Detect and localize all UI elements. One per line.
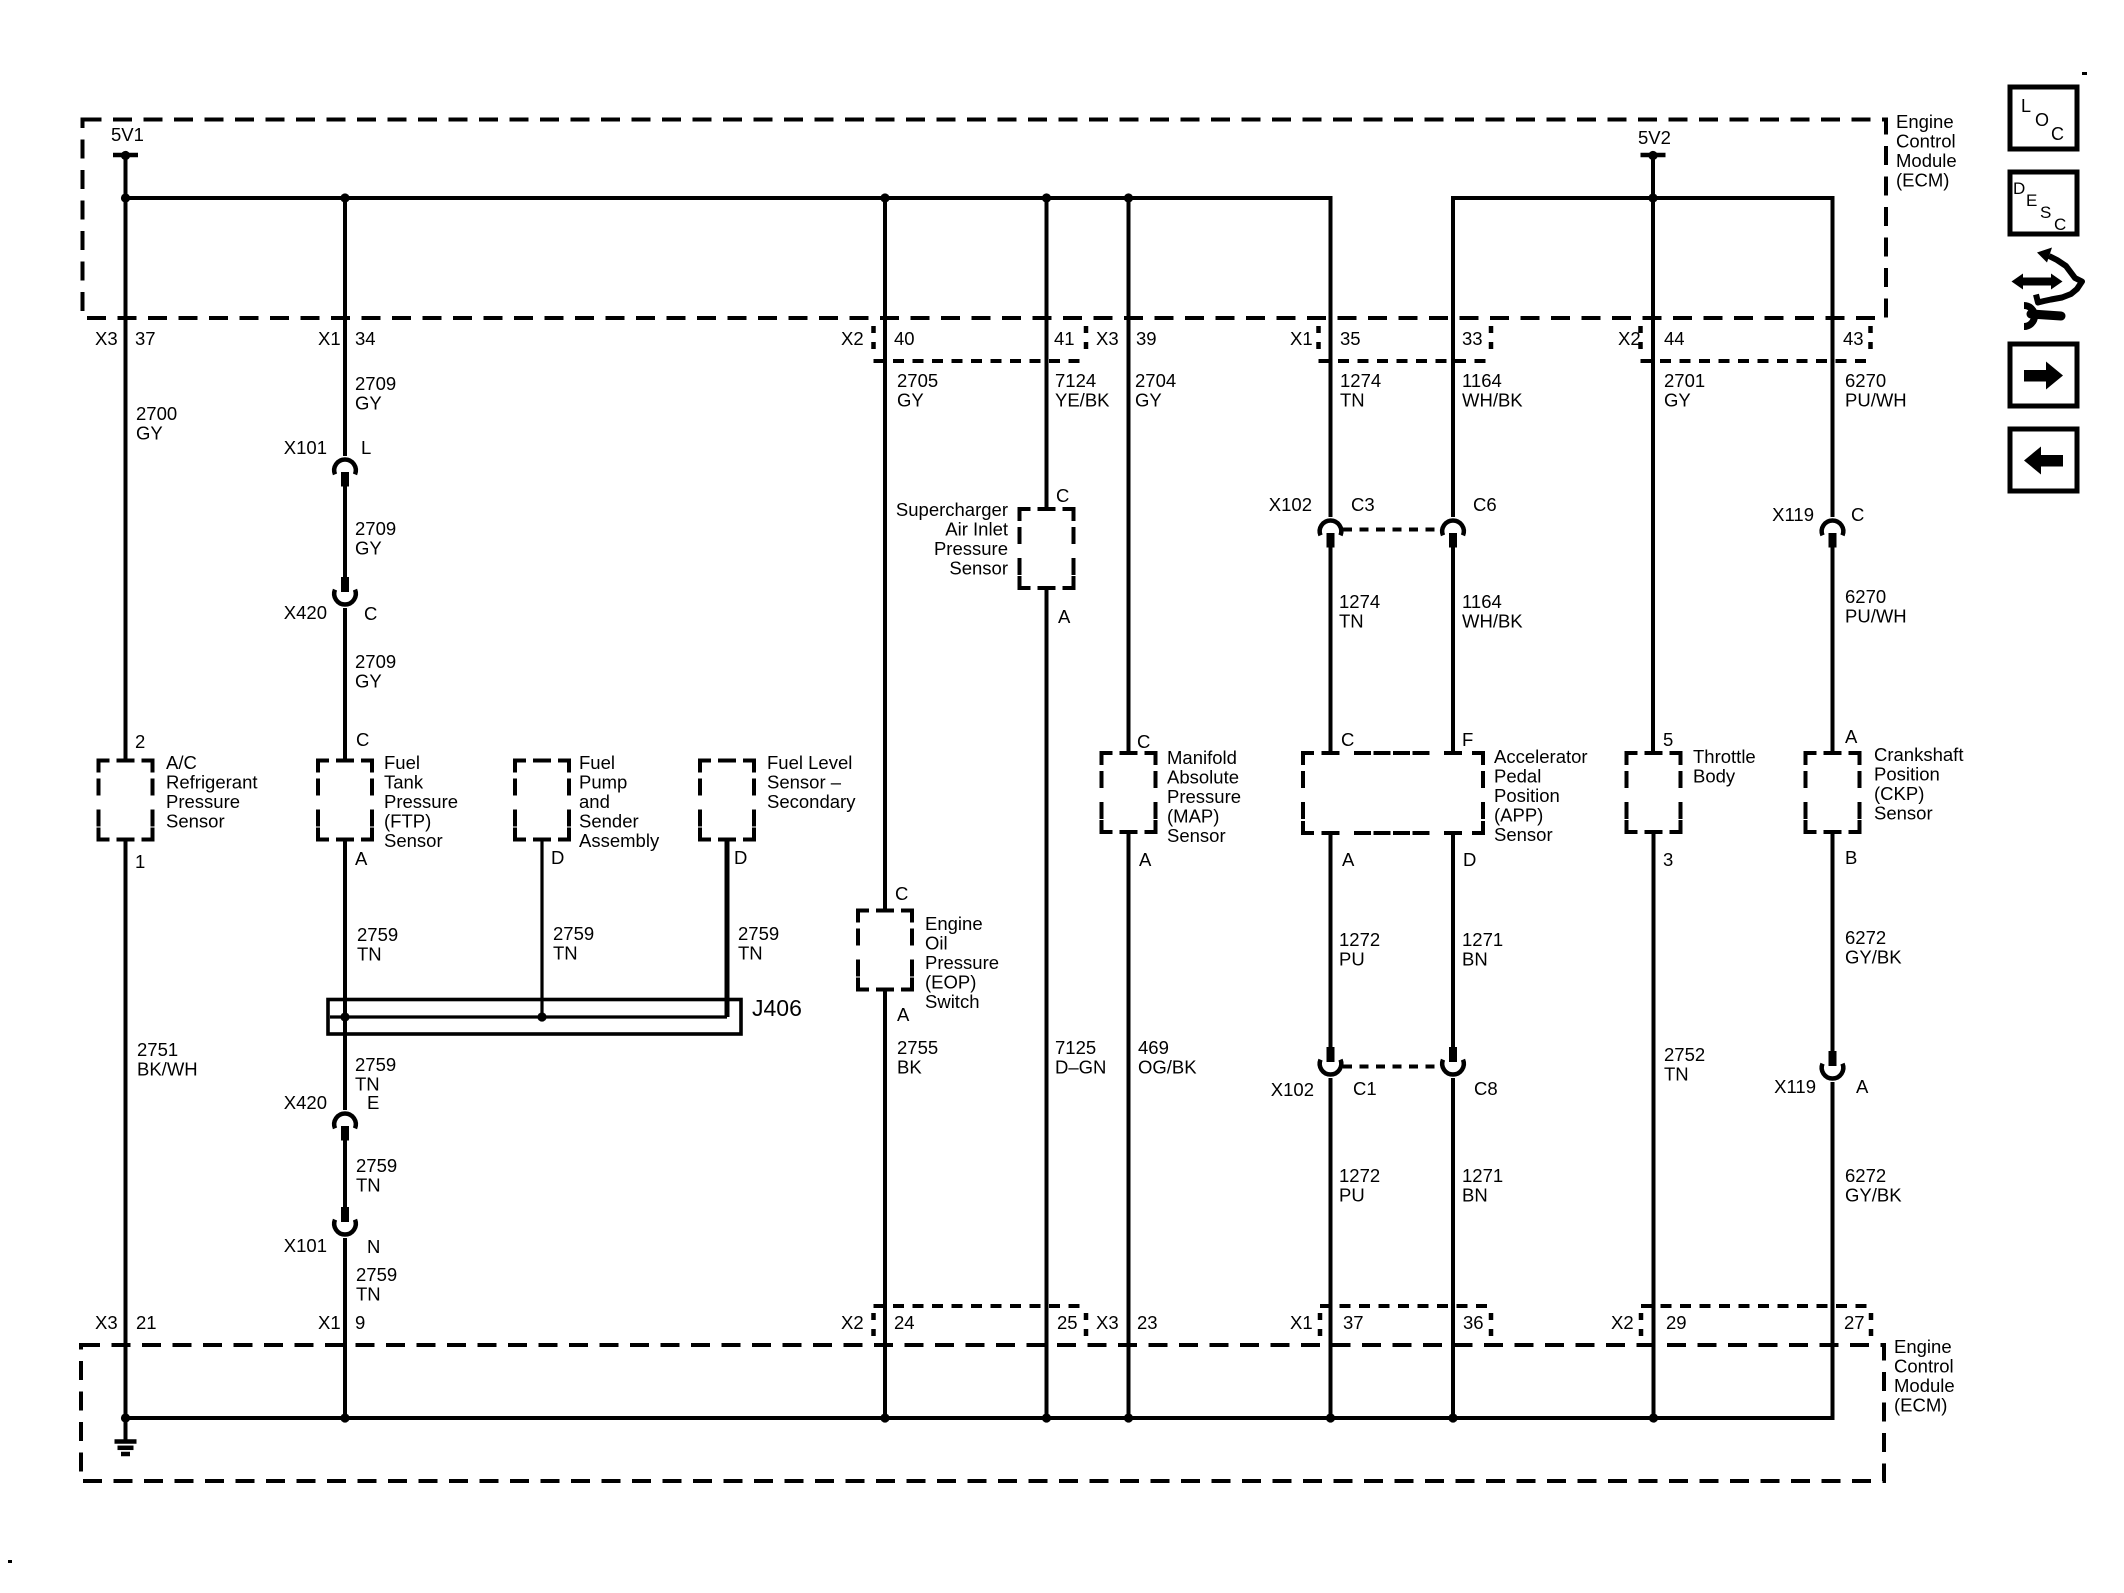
- svg-text:C: C: [1137, 731, 1150, 752]
- connector X420 pin C: [341, 577, 349, 592]
- svg-text:WH/BK: WH/BK: [1462, 390, 1523, 411]
- svg-text:Fuel Level: Fuel Level: [767, 752, 852, 773]
- wire 2759 TN FTP sensor to splice J406: [343, 842, 347, 1111]
- svg-text:2705: 2705: [897, 370, 938, 391]
- junction dot bus x=1128.5: [1124, 1413, 1133, 1422]
- svg-text:2759: 2759: [357, 924, 398, 945]
- dotted connector link C1-C8: [1343, 1065, 1441, 1069]
- svg-text:Accelerator: Accelerator: [1494, 746, 1588, 767]
- svg-text:GY/BK: GY/BK: [1845, 1185, 1902, 1206]
- svg-text:Sender: Sender: [579, 811, 639, 832]
- svg-text:C: C: [1851, 504, 1864, 525]
- splice J406: [328, 1000, 741, 1035]
- svg-text:GY: GY: [897, 390, 924, 411]
- svg-text:(EOP): (EOP): [925, 972, 976, 993]
- Throttle Body box: [1627, 753, 1681, 832]
- page speck bottom left: [8, 1560, 12, 1563]
- svg-text:Manifold: Manifold: [1167, 747, 1237, 768]
- svg-text:Pressure: Pressure: [384, 791, 458, 812]
- svg-text:1164: 1164: [1462, 370, 1502, 391]
- svg-text:A: A: [1342, 849, 1355, 870]
- svg-text:23: 23: [1137, 1312, 1158, 1333]
- svg-text:2755: 2755: [897, 1037, 938, 1058]
- svg-text:C: C: [356, 729, 369, 750]
- icon arrow right box: [2010, 344, 2077, 406]
- Engine Oil Pressure (EOP) Switch box: [858, 911, 912, 990]
- wire 1271 BN X102 to ECM 36: [1451, 1078, 1455, 1418]
- junction dot bus x=885: [880, 1413, 889, 1422]
- svg-text:Sensor: Sensor: [949, 558, 1008, 579]
- svg-text:(ECM): (ECM): [1896, 170, 1949, 191]
- svg-text:24: 24: [894, 1312, 915, 1333]
- svg-text:1274: 1274: [1339, 591, 1380, 612]
- svg-text:and: and: [579, 791, 610, 812]
- svg-text:C3: C3: [1351, 494, 1375, 515]
- svg-text:TN: TN: [1340, 390, 1365, 411]
- svg-text:Sensor –: Sensor –: [767, 772, 842, 793]
- svg-text:C: C: [1056, 485, 1069, 506]
- svg-text:44: 44: [1664, 328, 1685, 349]
- svg-text:Supercharger: Supercharger: [896, 499, 1008, 520]
- svg-text:GY: GY: [355, 393, 382, 414]
- svg-text:5V1: 5V1: [111, 124, 144, 145]
- svg-text:YE/BK: YE/BK: [1055, 390, 1110, 411]
- svg-text:Engine: Engine: [1894, 1336, 1952, 1357]
- Fuel Pump and Sender Assembly box: [515, 761, 569, 840]
- svg-text:2759: 2759: [356, 1264, 397, 1285]
- svg-text:X102: X102: [1269, 494, 1312, 515]
- svg-text:Engine: Engine: [1896, 111, 1954, 132]
- svg-text:1164: 1164: [1462, 591, 1502, 612]
- icon DESC box: [2010, 172, 2077, 234]
- svg-text:Sensor: Sensor: [384, 830, 443, 851]
- Fuel Level Sensor Secondary box: [700, 761, 754, 840]
- svg-text:469: 469: [1138, 1037, 1169, 1058]
- svg-text:Switch: Switch: [925, 991, 980, 1012]
- svg-text:6272: 6272: [1845, 1165, 1886, 1186]
- Fuel Tank Pressure (FTP) Sensor box: [318, 761, 372, 840]
- svg-text:B: B: [1845, 847, 1857, 868]
- svg-text:F: F: [1462, 729, 1473, 750]
- svg-text:C: C: [2051, 124, 2064, 144]
- connector X102 pin C8: [1449, 1047, 1457, 1062]
- svg-text:BN: BN: [1462, 949, 1488, 970]
- svg-text:C: C: [895, 883, 908, 904]
- A/C Refrigerant Pressure Sensor box: [99, 761, 153, 840]
- svg-text:GY: GY: [355, 538, 382, 559]
- svg-text:Pedal: Pedal: [1494, 766, 1541, 787]
- svg-text:Pump: Pump: [579, 772, 627, 793]
- svg-text:A: A: [897, 1004, 910, 1025]
- wire 2755 BK EOP switch to ECM X2-24: [883, 992, 887, 1419]
- svg-text:OG/BK: OG/BK: [1138, 1057, 1197, 1078]
- svg-text:(APP): (APP): [1494, 805, 1543, 826]
- junction dot bus x=345: [340, 1413, 349, 1422]
- svg-text:A: A: [1058, 606, 1071, 627]
- svg-text:33: 33: [1462, 328, 1483, 349]
- svg-text:X3: X3: [95, 1312, 118, 1333]
- junction dot bus x=1453: [1448, 1413, 1457, 1422]
- svg-text:A: A: [355, 848, 368, 869]
- svg-text:TN: TN: [738, 943, 763, 964]
- svg-text:C: C: [1341, 729, 1354, 750]
- svg-text:Oil: Oil: [925, 933, 948, 954]
- svg-text:Pressure: Pressure: [1167, 786, 1241, 807]
- page speck top right: [2082, 72, 2087, 75]
- wire 6272 GY/BK X119 to ECM 27: [1831, 1082, 1835, 1418]
- svg-text:GY: GY: [1135, 390, 1162, 411]
- svg-text:25: 25: [1057, 1312, 1078, 1333]
- svg-text:1271: 1271: [1462, 1165, 1503, 1186]
- svg-text:41: 41: [1054, 328, 1075, 349]
- svg-text:Crankshaft: Crankshaft: [1874, 744, 1963, 765]
- svg-text:7124: 7124: [1055, 370, 1096, 391]
- svg-text:Throttle: Throttle: [1693, 746, 1756, 767]
- svg-text:A: A: [1845, 726, 1858, 747]
- svg-text:(CKP): (CKP): [1874, 783, 1924, 804]
- svg-text:X101: X101: [284, 437, 327, 458]
- svg-text:X102: X102: [1271, 1079, 1314, 1100]
- svg-text:6270: 6270: [1845, 586, 1886, 607]
- svg-text:C: C: [2054, 215, 2066, 234]
- wire 5V1 to bus: [124, 155, 128, 198]
- svg-text:X420: X420: [284, 602, 327, 623]
- svg-text:Air Inlet: Air Inlet: [945, 519, 1008, 540]
- svg-text:Assembly: Assembly: [579, 830, 660, 851]
- top inline connector dotted boxes: [871, 326, 876, 352]
- svg-text:WH/BK: WH/BK: [1462, 611, 1523, 632]
- svg-text:C6: C6: [1473, 494, 1497, 515]
- wire 2709 GY segment X420 to FTP sensor: [343, 608, 347, 759]
- svg-text:X101: X101: [284, 1235, 327, 1256]
- svg-text:Pressure: Pressure: [934, 538, 1008, 559]
- svg-text:39: 39: [1136, 328, 1157, 349]
- svg-text:D: D: [1463, 849, 1476, 870]
- svg-text:Position: Position: [1874, 764, 1940, 785]
- svg-text:29: 29: [1666, 1312, 1687, 1333]
- svg-text:X3: X3: [95, 328, 118, 349]
- svg-text:X119: X119: [1772, 504, 1814, 525]
- svg-text:C8: C8: [1474, 1078, 1498, 1099]
- svg-text:D: D: [734, 847, 747, 868]
- Manifold Absolute Pressure (MAP) Sensor box: [1102, 753, 1156, 832]
- svg-text:C: C: [364, 603, 377, 624]
- svg-text:PU/WH: PU/WH: [1845, 390, 1907, 411]
- svg-text:Sensor: Sensor: [1494, 824, 1553, 845]
- svg-text:E: E: [2026, 191, 2037, 210]
- svg-text:X1: X1: [1290, 1312, 1313, 1333]
- svg-text:GY: GY: [1664, 390, 1691, 411]
- svg-text:L: L: [361, 437, 371, 458]
- ECM top dashed box: [83, 120, 1887, 319]
- wire 2700 GY (ECM X3-37 to A/C sensor pin 2): [124, 198, 128, 759]
- ground bus (bottom): [124, 1416, 1835, 1420]
- wire 1164 WH/BK ECM 33 to X102 C6: [1451, 198, 1455, 517]
- svg-text:X3: X3: [1096, 1312, 1119, 1333]
- svg-text:2709: 2709: [355, 373, 396, 394]
- svg-text:X1: X1: [318, 328, 341, 349]
- wire 2705 GY ECM X2-40 to EOP switch: [883, 198, 887, 909]
- svg-text:TN: TN: [1664, 1064, 1689, 1085]
- svg-text:6272: 6272: [1845, 927, 1886, 948]
- svg-text:2709: 2709: [355, 651, 396, 672]
- svg-text:X420: X420: [284, 1092, 327, 1113]
- svg-text:GY: GY: [136, 423, 163, 444]
- svg-text:GY: GY: [355, 671, 382, 692]
- svg-text:3: 3: [1663, 849, 1673, 870]
- svg-text:C1: C1: [1353, 1078, 1377, 1099]
- bottom inline connector dotted boxes: [871, 1313, 876, 1339]
- connector X119 pin A: [1829, 1051, 1837, 1066]
- wire 2759 TN X101 to ECM X1-9: [343, 1238, 347, 1418]
- wire 2709 GY segment ECM X1-34 to X101: [343, 198, 347, 456]
- wire 1274 TN X102 to APP sensor pin C: [1329, 547, 1333, 752]
- svg-text:5: 5: [1663, 729, 1673, 750]
- junction dot bus x=1330.5: [1326, 1413, 1335, 1422]
- Supercharger Air Inlet Pressure Sensor box: [1020, 509, 1074, 588]
- Crankshaft Position (CKP) Sensor box: [1806, 753, 1860, 832]
- svg-text:Pressure: Pressure: [925, 952, 999, 973]
- wire 7124 YE/BK ECM 41 to supercharger sensor: [1045, 198, 1049, 507]
- wire 6270 PU/WH X119 to CKP sensor pin A: [1831, 547, 1835, 752]
- wire 2759 TN fuel pump to J406: [540, 842, 543, 1018]
- wire 1274 TN ECM X1-35 to X102 C3: [1329, 198, 1333, 517]
- svg-text:21: 21: [136, 1312, 157, 1333]
- wire 2759 TN X420 to X101: [343, 1140, 347, 1208]
- svg-text:2759: 2759: [355, 1054, 396, 1075]
- svg-text:2751: 2751: [137, 1039, 178, 1060]
- junction dot bus x=1653.5: [1649, 1413, 1658, 1422]
- svg-text:Fuel: Fuel: [384, 752, 420, 773]
- icon wrench with arrows: [2012, 248, 2083, 327]
- svg-text:5V2: 5V2: [1638, 127, 1671, 148]
- svg-text:D: D: [2013, 179, 2025, 198]
- svg-text:Absolute: Absolute: [1167, 767, 1239, 788]
- wire 469 OG/BK MAP sensor to ECM X3-23: [1127, 834, 1131, 1418]
- connector X101 pin N: [341, 1207, 349, 1222]
- connector X102 pin C1: [1327, 1047, 1335, 1062]
- svg-text:43: 43: [1843, 328, 1864, 349]
- svg-text:TN: TN: [356, 1284, 381, 1305]
- svg-text:A/C: A/C: [166, 752, 197, 773]
- svg-text:2752: 2752: [1664, 1044, 1705, 1065]
- svg-text:Body: Body: [1693, 766, 1736, 787]
- svg-text:GY/BK: GY/BK: [1845, 947, 1902, 968]
- svg-text:X119: X119: [1774, 1076, 1816, 1097]
- icon LOC box: [2010, 87, 2077, 149]
- svg-text:6270: 6270: [1845, 370, 1886, 391]
- svg-text:BK: BK: [897, 1057, 922, 1078]
- wire 2704 GY ECM X3-39 to MAP sensor: [1127, 198, 1131, 751]
- svg-text:PU: PU: [1339, 949, 1365, 970]
- junction dot bus x=1046.5: [1042, 1413, 1051, 1422]
- svg-text:1272: 1272: [1339, 1165, 1380, 1186]
- svg-text:Module: Module: [1896, 150, 1957, 171]
- svg-text:E: E: [367, 1092, 379, 1113]
- svg-text:S: S: [2040, 203, 2051, 222]
- svg-text:X1: X1: [1290, 328, 1313, 349]
- svg-text:2759: 2759: [553, 923, 594, 944]
- svg-text:X2: X2: [841, 1312, 864, 1333]
- wire 2752 TN throttle body to ECM X2-29: [1652, 834, 1656, 1418]
- svg-text:Sensor: Sensor: [166, 811, 225, 832]
- svg-text:Control: Control: [1896, 131, 1956, 152]
- 5V bus right segment: [1451, 196, 1835, 200]
- icon arrow left box: [2010, 429, 2077, 491]
- svg-text:N: N: [367, 1236, 380, 1257]
- svg-text:X2: X2: [1618, 328, 1641, 349]
- svg-text:Sensor: Sensor: [1874, 803, 1933, 824]
- svg-text:X2: X2: [1611, 1312, 1634, 1333]
- svg-text:TN: TN: [553, 943, 578, 964]
- wire 2701 GY ECM X2-44 to throttle body pin 5: [1651, 198, 1655, 751]
- svg-text:37: 37: [135, 328, 156, 349]
- svg-text:2709: 2709: [355, 518, 396, 539]
- svg-text:BK/WH: BK/WH: [137, 1059, 198, 1080]
- svg-text:D–GN: D–GN: [1055, 1057, 1106, 1078]
- wire 1164 WH/BK X102 to APP sensor pin F: [1451, 547, 1455, 752]
- svg-text:40: 40: [894, 328, 915, 349]
- svg-text:2759: 2759: [356, 1155, 397, 1176]
- svg-text:TN: TN: [356, 1175, 381, 1196]
- svg-text:1274: 1274: [1340, 370, 1381, 391]
- wire 6270 PU/WH ECM 43 to X119 C: [1831, 198, 1835, 517]
- svg-text:J406: J406: [752, 995, 802, 1021]
- junction dot 5V2/bus: [1648, 193, 1657, 202]
- svg-text:(FTP): (FTP): [384, 811, 431, 832]
- svg-text:Position: Position: [1494, 785, 1560, 806]
- svg-text:(MAP): (MAP): [1167, 806, 1219, 827]
- svg-text:Tank: Tank: [384, 772, 424, 793]
- svg-text:1272: 1272: [1339, 929, 1380, 950]
- svg-text:Control: Control: [1894, 1356, 1954, 1377]
- svg-text:Pressure: Pressure: [166, 791, 240, 812]
- svg-text:2701: 2701: [1664, 370, 1705, 391]
- svg-text:(ECM): (ECM): [1894, 1395, 1947, 1416]
- svg-text:34: 34: [355, 328, 376, 349]
- wire 2751 BK/WH (A/C sensor pin 1 to ECM X3-21): [124, 842, 128, 1419]
- svg-text:2759: 2759: [738, 923, 779, 944]
- svg-text:2700: 2700: [136, 403, 177, 424]
- svg-text:Fuel: Fuel: [579, 752, 615, 773]
- wire 2709 GY segment X101 to X420: [343, 486, 347, 578]
- wire 1271 BN APP sensor to X102 C8: [1451, 834, 1455, 1047]
- svg-text:D: D: [551, 847, 564, 868]
- svg-text:O: O: [2035, 110, 2049, 130]
- svg-text:X2: X2: [841, 328, 864, 349]
- wire 5V2 to bus: [1651, 155, 1655, 198]
- svg-text:Sensor: Sensor: [1167, 825, 1226, 846]
- ground symbol: [124, 1418, 128, 1441]
- svg-text:2704: 2704: [1135, 370, 1176, 391]
- svg-text:TN: TN: [357, 944, 382, 965]
- svg-text:36: 36: [1463, 1312, 1484, 1333]
- junction dot bus x=125.5: [121, 1413, 130, 1422]
- svg-text:2: 2: [135, 731, 145, 752]
- svg-text:37: 37: [1343, 1312, 1364, 1333]
- svg-text:TN: TN: [1339, 611, 1364, 632]
- svg-text:A: A: [1856, 1076, 1869, 1097]
- wire 6272 GY/BK CKP sensor to X119 A: [1831, 834, 1835, 1051]
- junction dots on left bus: [121, 193, 130, 202]
- dotted connector link C3-C6: [1343, 528, 1441, 532]
- svg-text:27: 27: [1844, 1312, 1865, 1333]
- svg-text:PU: PU: [1339, 1185, 1365, 1206]
- svg-text:35: 35: [1340, 328, 1361, 349]
- svg-text:X1: X1: [318, 1312, 341, 1333]
- Accelerator Pedal Position (APP) Sensor box: [1303, 753, 1483, 833]
- svg-text:L: L: [2021, 96, 2031, 116]
- 5V bus left segment: [124, 196, 1333, 200]
- svg-text:Engine: Engine: [925, 913, 983, 934]
- svg-text:X3: X3: [1096, 328, 1119, 349]
- svg-text:1: 1: [135, 851, 145, 872]
- svg-text:BN: BN: [1462, 1185, 1488, 1206]
- svg-text:1271: 1271: [1462, 929, 1503, 950]
- svg-text:A: A: [1139, 849, 1152, 870]
- svg-text:PU/WH: PU/WH: [1845, 606, 1907, 627]
- ECM bottom dashed box: [81, 1345, 1884, 1481]
- wire 1272 PU APP sensor to X102 C1: [1329, 834, 1333, 1047]
- wire 7125 D-GN supercharger sensor to ECM 25: [1045, 590, 1049, 1418]
- svg-text:7125: 7125: [1055, 1037, 1096, 1058]
- wire 1272 PU X102 to ECM X1-37: [1329, 1078, 1333, 1418]
- svg-text:9: 9: [355, 1312, 365, 1333]
- svg-text:Refrigerant: Refrigerant: [166, 772, 258, 793]
- wire 2759 TN fuel level to J406: [725, 842, 730, 1018]
- svg-text:Module: Module: [1894, 1375, 1955, 1396]
- svg-text:Secondary: Secondary: [767, 791, 856, 812]
